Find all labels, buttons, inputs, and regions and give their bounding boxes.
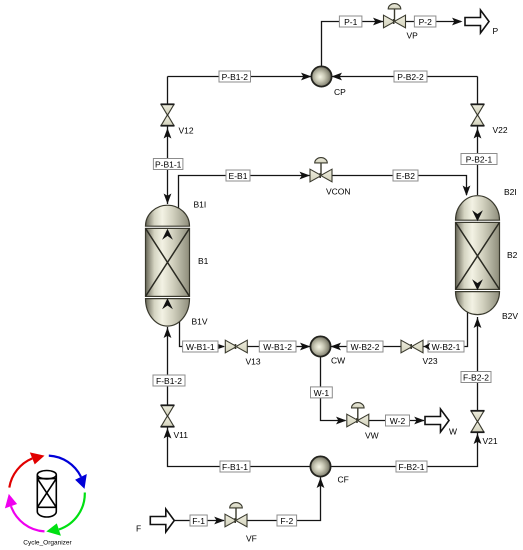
- svg-text:VP: VP: [407, 31, 419, 41]
- svg-text:F-B2-1: F-B2-1: [399, 462, 425, 472]
- svg-text:V11: V11: [174, 430, 189, 440]
- svg-text:P-B1-2: P-B1-2: [222, 72, 249, 82]
- svg-text:W-1: W-1: [314, 388, 330, 398]
- svg-text:CW: CW: [331, 356, 345, 366]
- svg-text:W: W: [449, 427, 457, 437]
- svg-text:VF: VF: [246, 534, 257, 544]
- svg-text:B2I: B2I: [504, 187, 517, 197]
- svg-text:W-B2-2: W-B2-2: [351, 342, 380, 352]
- svg-text:P-1: P-1: [344, 17, 358, 27]
- svg-text:W-B1-1: W-B1-1: [186, 342, 215, 352]
- svg-text:V21: V21: [483, 436, 498, 446]
- svg-text:F-B2-2: F-B2-2: [463, 373, 489, 383]
- svg-text:B1I: B1I: [194, 200, 207, 210]
- svg-text:F-2: F-2: [280, 516, 293, 526]
- svg-text:V22: V22: [493, 125, 508, 135]
- svg-text:B2V: B2V: [502, 311, 518, 321]
- svg-text:Cycle_Organizer: Cycle_Organizer: [23, 540, 72, 547]
- svg-text:F-B1-1: F-B1-1: [222, 462, 248, 472]
- svg-text:CF: CF: [338, 475, 349, 485]
- svg-text:P-2: P-2: [419, 17, 433, 27]
- svg-text:W-2: W-2: [390, 416, 406, 426]
- svg-text:F-B1-2: F-B1-2: [156, 376, 182, 386]
- svg-text:CP: CP: [334, 87, 346, 97]
- svg-text:W-B2-1: W-B2-1: [432, 342, 461, 352]
- svg-text:VW: VW: [365, 431, 379, 441]
- svg-text:VCON: VCON: [326, 187, 351, 197]
- svg-text:P: P: [493, 26, 499, 36]
- svg-text:B1V: B1V: [192, 317, 208, 327]
- svg-text:F-1: F-1: [192, 516, 205, 526]
- svg-text:V12: V12: [179, 126, 194, 136]
- svg-text:B1: B1: [198, 256, 209, 266]
- svg-text:P-B2-1: P-B2-1: [466, 155, 493, 165]
- svg-text:W-B1-2: W-B1-2: [263, 342, 292, 352]
- svg-text:P-B2-2: P-B2-2: [397, 72, 424, 82]
- svg-text:V13: V13: [246, 357, 261, 367]
- svg-text:V23: V23: [423, 356, 438, 366]
- svg-text:B2: B2: [507, 250, 518, 260]
- svg-text:E-B1: E-B1: [229, 171, 248, 181]
- svg-text:E-B2: E-B2: [396, 171, 415, 181]
- svg-text:F: F: [136, 524, 141, 534]
- svg-text:P-B1-1: P-B1-1: [155, 160, 182, 170]
